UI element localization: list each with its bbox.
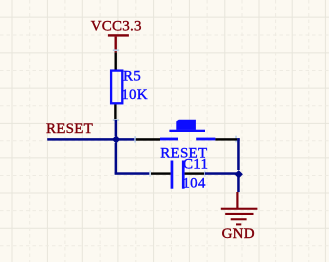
svg-text:VCC3.3: VCC3.3 bbox=[91, 19, 142, 35]
label VCC3.3 bbox=[91, 19, 142, 35]
junction B bbox=[235, 170, 243, 178]
wire junction B to GND bbox=[237, 174, 240, 193]
label 104 bbox=[182, 175, 206, 191]
junction A bbox=[112, 135, 120, 143]
capacitor C11 bbox=[171, 161, 185, 189]
wire R5 to junction A bbox=[115, 120, 118, 136]
pin R5.2 bbox=[113, 105, 119, 121]
wire junction A down bbox=[115, 143, 118, 174]
wire junction A to SW bbox=[117, 138, 136, 141]
label 10K bbox=[121, 87, 148, 103]
label C11 bbox=[183, 157, 208, 173]
svg-text:104: 104 bbox=[182, 175, 206, 191]
svg-text:10K: 10K bbox=[121, 87, 148, 103]
power port VCC3.3 bbox=[108, 34, 129, 52]
wire C11 to junction B bbox=[205, 172, 238, 175]
resistor R5 bbox=[111, 71, 122, 104]
wire SW to junction B bbox=[237, 138, 240, 170]
svg-text:C11: C11 bbox=[183, 157, 208, 173]
label GND bbox=[222, 226, 255, 242]
pin C11.2 bbox=[185, 171, 206, 177]
pin SW.2 bbox=[215, 136, 237, 143]
label RESET (switch designator) bbox=[160, 145, 207, 161]
pin C11.1 bbox=[149, 171, 170, 177]
net label RESET bbox=[46, 121, 93, 137]
svg-text:GND: GND bbox=[222, 226, 255, 242]
wire RESET bbox=[47, 138, 116, 141]
label R5 bbox=[123, 69, 141, 85]
ground bbox=[221, 192, 258, 225]
switch RESET (push button) bbox=[160, 120, 215, 141]
wire to C11 bbox=[115, 172, 150, 175]
pin SW.1 bbox=[134, 136, 160, 142]
svg-text:R5: R5 bbox=[123, 69, 141, 85]
svg-text:RESET: RESET bbox=[46, 121, 93, 137]
pin R5.1 bbox=[113, 49, 119, 70]
